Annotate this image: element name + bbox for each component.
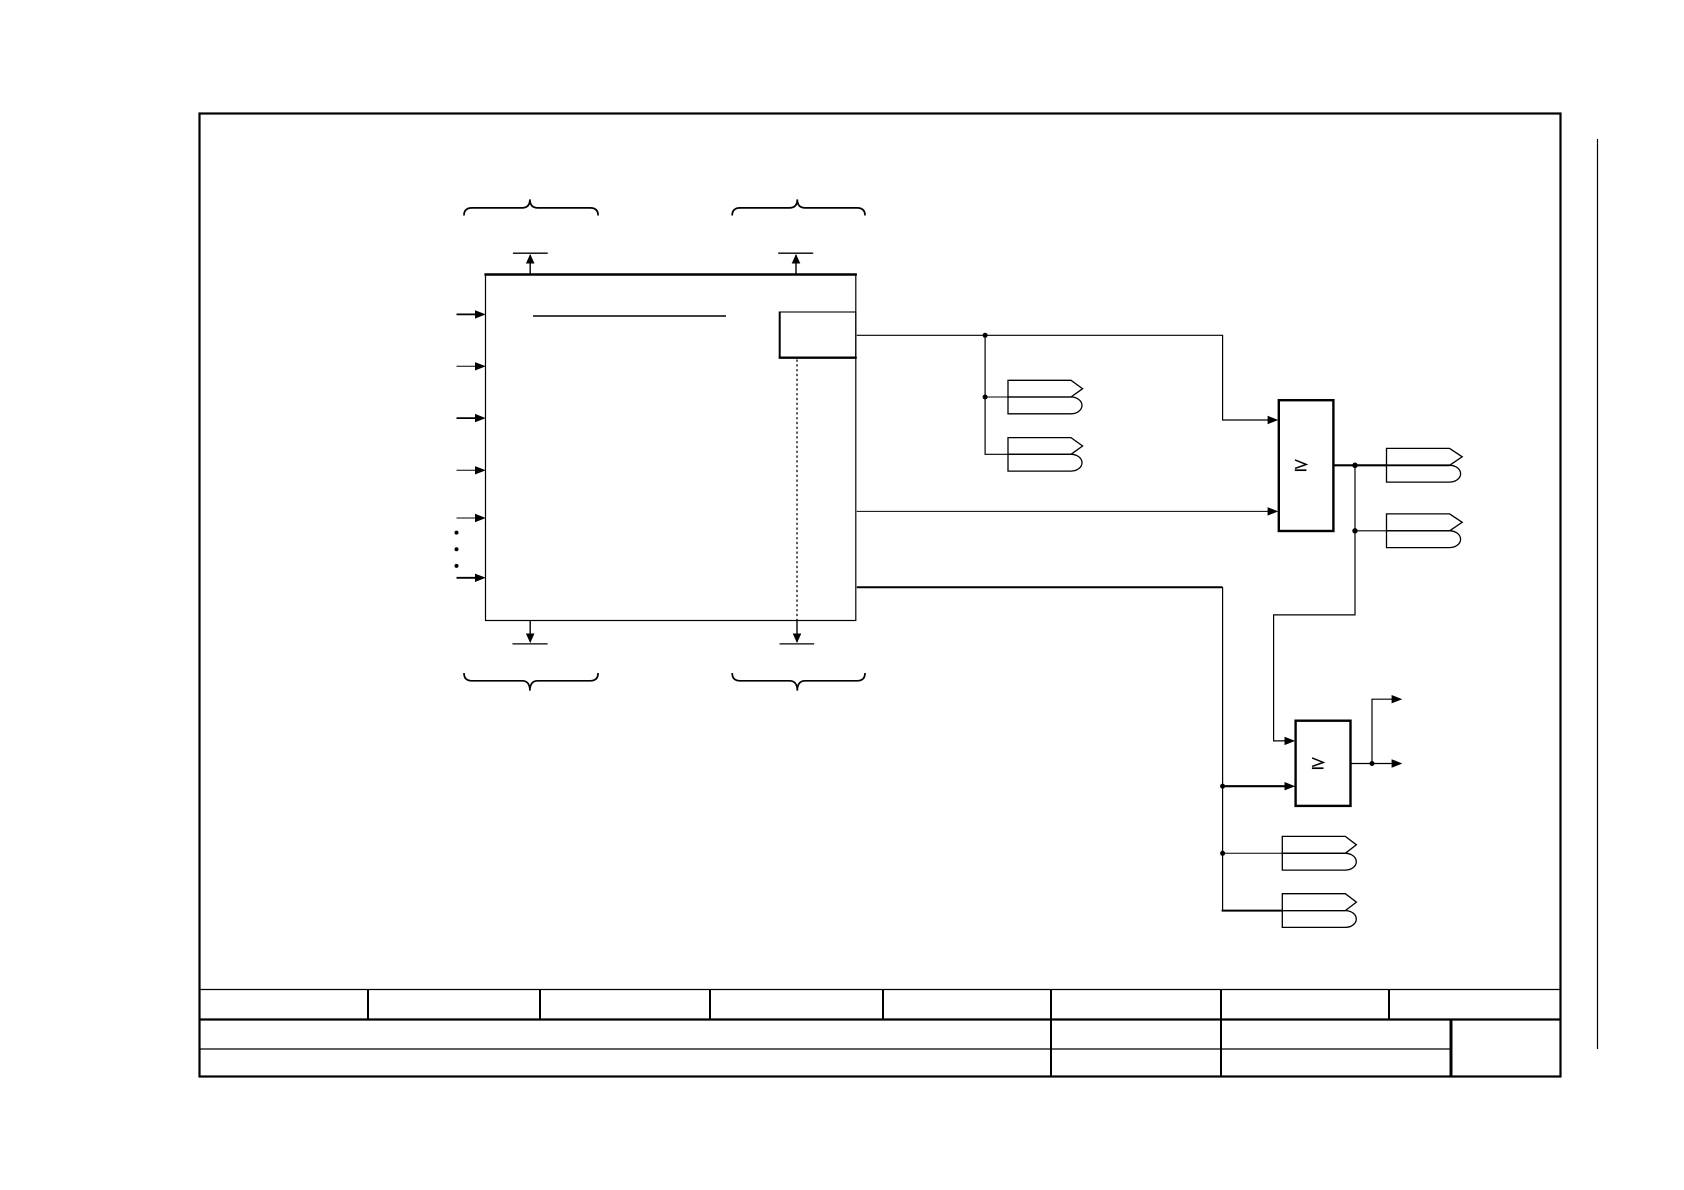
- connector R2: [1387, 514, 1463, 548]
- wire: block lower output down the right: [857, 586, 1223, 588]
- bottom-right bus stub: [780, 621, 815, 644]
- brace top-left: [464, 199, 598, 215]
- OR gate U3: [1296, 721, 1351, 806]
- brace bottom-left: [464, 673, 598, 691]
- connector B1: [1282, 836, 1356, 870]
- title block header bottom line: [199, 1018, 1560, 1020]
- input arrow 1: [457, 310, 486, 318]
- input arrow 2: [457, 362, 486, 370]
- ellipsis dots: [455, 531, 459, 568]
- wire: OR2 output arrows: [1351, 763, 1393, 765]
- brace bottom-right: [732, 673, 865, 691]
- node feeding connector B1: [1220, 851, 1225, 856]
- title block: [199, 990, 1560, 1077]
- wire: branch down to connector R2: [1354, 465, 1356, 531]
- node on wire: [983, 333, 988, 338]
- header cell divider 6: [1220, 990, 1222, 1077]
- input arrow 4: [457, 466, 486, 474]
- header cell divider 3: [709, 990, 711, 1020]
- connector B2: [1282, 894, 1356, 928]
- input arrow 3: [457, 414, 486, 422]
- input arrow 6: [457, 574, 486, 582]
- title block middle row line: [199, 1048, 1451, 1050]
- main block U1: [486, 275, 856, 621]
- bottom-left bus stub: [512, 621, 547, 644]
- input arrow 5: [457, 514, 486, 522]
- wire: sub-block output to OR1 top input: [857, 335, 1269, 420]
- top-right bus stub: [778, 253, 813, 274]
- node feeding OR2: [1220, 784, 1225, 789]
- header cell divider 4: [882, 990, 884, 1020]
- wire: block middle output to OR1 bottom input: [857, 510, 1269, 512]
- OR gate U2: [1279, 400, 1334, 531]
- header cell divider 2: [539, 990, 541, 1020]
- connector L1: [1008, 380, 1083, 414]
- header cell divider 5: [1050, 990, 1052, 1077]
- wire: OR1 output feedback to OR2 top input: [1274, 531, 1355, 741]
- connector L2: [1008, 438, 1083, 472]
- page right margin line: [1597, 139, 1599, 1049]
- sub-block (register) top right: [779, 312, 857, 359]
- thick wire into connector B2: [1222, 910, 1283, 912]
- header cell divider 1: [367, 990, 369, 1020]
- dotted internal line: [796, 360, 798, 621]
- title block top line: [199, 989, 1560, 991]
- top-left bus stub: [513, 253, 548, 274]
- OR gate U2 symbol (greater-equal): [1295, 460, 1307, 470]
- header cell divider 7: [1388, 990, 1390, 1020]
- OR gate U3 symbol (greater-equal): [1312, 758, 1324, 768]
- connector R1: [1387, 448, 1463, 482]
- main block top edge (thick): [484, 273, 857, 276]
- brace top-right: [732, 199, 865, 215]
- block title underline: [533, 315, 726, 317]
- page frame: [200, 114, 1561, 1077]
- title block right cell divider: [1450, 1020, 1453, 1077]
- wire: drop to connectors L1 L2: [985, 335, 1008, 454]
- wire: OR1 output to connector R1: [1333, 464, 1386, 466]
- wire stub to connector L1: [985, 396, 1008, 398]
